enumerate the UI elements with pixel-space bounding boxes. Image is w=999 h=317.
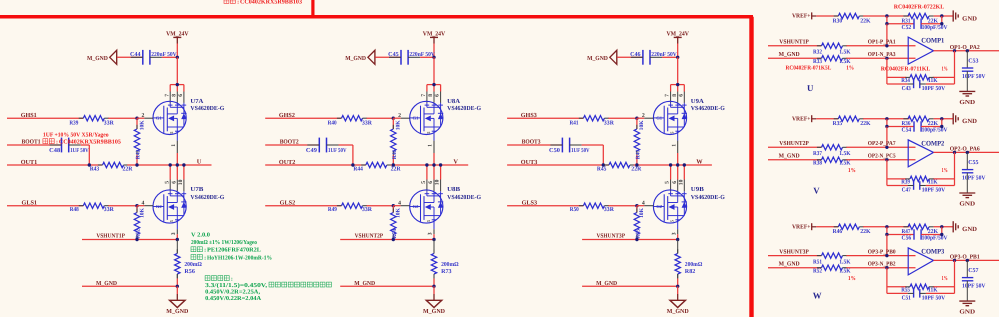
net label VSHUNT1P (phase 1) [96, 233, 125, 240]
net label BOOT2 (phase 2) [280, 139, 299, 146]
resistor R34 11K feedback [901, 75, 938, 85]
wire VM_24V down to U8A drain (phase 2) [433, 57, 435, 84]
svg-text:OP2-P_PA7: OP2-P_PA7 [868, 141, 896, 147]
wire BOOT1 (phase 1) [7, 144, 62, 146]
svg-text:1%: 1% [848, 168, 856, 174]
svg-text:1: 1 [428, 144, 434, 147]
svg-text:C53: C53 [968, 59, 978, 65]
net label GHS3 (phase 3) [521, 112, 537, 119]
border top short vertical red line [311, 0, 314, 17]
svg-text:R48: R48 [70, 207, 79, 213]
svg-text:RC0402FR-0711KL: RC0402FR-0711KL [881, 67, 931, 73]
svg-text:1%: 1% [942, 276, 948, 282]
svg-text:10PF 50V: 10PF 50V [922, 86, 946, 92]
pin 2 gate stub U7A (phase 1) [141, 113, 153, 119]
svg-text:22K: 22K [860, 121, 871, 127]
svg-text:HoYH1206-1W-200mR-1%: HoYH1206-1W-200mR-1% [207, 255, 272, 261]
junction OUT3/R47 (phase 3) [635, 163, 638, 166]
annotation 电流计算 [205, 276, 233, 283]
pins 7/8/6 drain stubs U7A (phase 1) [170, 92, 184, 103]
wire BOOT2 to OUT2 (phase 2) [339, 145, 353, 165]
power port M_GND arrow phase 2 [345, 50, 375, 64]
svg-text:R42: R42 [136, 149, 142, 159]
net label GLS1 (phase 1) [22, 200, 38, 207]
wire filter branch right [921, 227, 942, 235]
resistor R41 33R gate (phase 3) [570, 116, 615, 127]
wire U7B source to VSHUNT1P (phase 1) [176, 234, 178, 239]
svg-text:C49: C49 [306, 148, 317, 154]
svg-text:1%: 1% [942, 168, 948, 174]
resistor R82 200mOhm shunt (phase 3) [675, 240, 702, 279]
power port M_GND arrow phase 1 [87, 50, 117, 64]
wire filter branch right [921, 16, 942, 24]
pin numbers drain U7B (phase 1) [164, 179, 184, 185]
wire U9B source to VSHUNT3P (phase 3) [677, 234, 679, 239]
svg-text:10: 10 [435, 179, 441, 185]
wire feedback right [954, 260, 956, 293]
pin 2 gate stub U8A (phase 2) [398, 113, 410, 119]
wire cap to GND [966, 71, 968, 91]
svg-text:5: 5 [421, 181, 427, 184]
wire R31 to GND [934, 15, 954, 17]
wire OUT3 left (phase 3) [507, 164, 609, 166]
svg-text:PE1206FRF470R2L: PE1206FRF470R2L [207, 248, 261, 254]
annotation 备选 HoYH1206-1W-200mR-1% [191, 255, 272, 262]
wire VSHUNT3P (phase 3) [582, 239, 678, 241]
svg-text:VS4620DE-G: VS4620DE-G [447, 105, 481, 112]
svg-text:10K: 10K [396, 207, 402, 218]
wire GHS3 left (phase 3) [507, 117, 583, 119]
svg-text:1.5K: 1.5K [839, 59, 851, 65]
pin label OP3-N_PB2 [868, 261, 896, 267]
capacitor C53 10PF output [962, 59, 986, 80]
wire vref node to plus input [886, 235, 888, 256]
junction VSHUNT3P/source (phase 3) [676, 238, 679, 241]
net label OUT1 (phase 1) [21, 159, 38, 166]
wire output OP1-O_PA2 [934, 50, 999, 52]
svg-text:M_GND: M_GND [423, 308, 446, 315]
svg-text:10PF 50V: 10PF 50V [962, 175, 986, 181]
junction gate/R52 (phase 1) [135, 204, 138, 207]
junction filter left [885, 233, 888, 236]
annotation 0.450V/0.2R=2.25A [205, 289, 261, 295]
pin label OP1-O_PA2 [950, 45, 980, 51]
wire C45 to VM net phase 2 [420, 56, 434, 58]
svg-text:11K: 11K [928, 180, 938, 186]
wire M_GND to R52 [768, 267, 822, 269]
svg-text:7: 7 [665, 94, 671, 97]
wire OUT1 to phase node (phase 1) [127, 164, 211, 166]
resistor R39 33R gate (phase 1) [69, 116, 114, 127]
svg-text:VM_24V: VM_24V [667, 31, 690, 38]
wire U9A source to OUT3 (phase 3) [677, 153, 679, 165]
svg-text:200mΩ: 200mΩ [685, 262, 703, 268]
wire drain bus of U8A (phase 2) [427, 83, 441, 92]
junction vref-node right [940, 14, 943, 17]
junction filter right [940, 125, 943, 128]
resistor R33 1.5K [813, 56, 851, 65]
svg-text:100pF/50V: 100pF/50V [922, 236, 949, 242]
svg-text:1%: 1% [848, 276, 856, 282]
pin numbers drain U9B (phase 3) [665, 179, 685, 185]
wire OUT1 to U7B drains + junctions (phase 1) [169, 163, 186, 179]
svg-text:R49: R49 [328, 207, 337, 213]
svg-text:U: U [807, 83, 814, 93]
junction output/feedback [953, 151, 956, 154]
junction VSHUNT1P/R52 (phase 1) [135, 238, 138, 241]
wire GLS1 to gate (phase 1) [108, 205, 137, 207]
wire minus input [846, 57, 915, 59]
svg-text:G1: G1 [156, 116, 163, 121]
resistor R31 22K filter [902, 13, 939, 24]
pins 5/6/10 drain stubs U7B (phase 1) [170, 180, 184, 192]
net label phase U (phase 1) [197, 159, 202, 166]
wire GLS3 left (phase 3) [507, 205, 583, 207]
wire GHS2 to gate (phase 2) [367, 117, 394, 119]
svg-text:U7A: U7A [190, 98, 204, 105]
wire C44 to VM net phase 1 [162, 56, 177, 58]
ground GND right block 3 [953, 221, 977, 233]
power port VM_24V phase 3 [667, 31, 690, 44]
power port M_GND bottom phase 1 [166, 294, 189, 315]
svg-text:VS4620DE-G: VS4620DE-G [691, 105, 725, 112]
svg-text::: : [204, 255, 206, 261]
svg-text:10: 10 [678, 179, 684, 185]
svg-text:1UF 50V: 1UF 50V [571, 148, 590, 154]
wire BOOT2 (phase 2) [265, 144, 319, 146]
svg-text:1UF 50V: 1UF 50V [328, 148, 347, 154]
border main horizontal red line [0, 15, 753, 19]
svg-text:R46: R46 [392, 149, 398, 159]
svg-text:33R: 33R [362, 207, 373, 213]
annotation 1% right [942, 276, 948, 282]
svg-text:4: 4 [642, 200, 645, 206]
resistor R73 200mOhm shunt (phase 2) [431, 240, 458, 279]
svg-text:CC0402KRX5R9BB105: CC0402KRX5R9BB105 [59, 140, 121, 146]
wire filter branch left [887, 227, 914, 235]
svg-text:R30: R30 [833, 18, 843, 24]
node label phase letter block 2 [813, 185, 820, 195]
wire plus input [846, 255, 915, 257]
svg-text:R41: R41 [570, 120, 579, 126]
svg-text:10PF 50V: 10PF 50V [922, 295, 946, 301]
wire VM_24V vertical phase 2 [433, 44, 435, 58]
wire drain bus of U9A (phase 3) [671, 83, 685, 92]
svg-text:200mΩ: 200mΩ [184, 262, 202, 268]
svg-text:R34: R34 [901, 78, 910, 84]
svg-text:VREF+: VREF+ [792, 13, 811, 20]
resistor R50 33R gate (phase 3) [570, 203, 615, 213]
wire plus input [846, 146, 915, 148]
resistor R42 10K gate-source (phase 1) [134, 118, 145, 165]
svg-text::: : [237, 0, 239, 5]
wire feedback bottom [887, 83, 955, 85]
power port VREF+ block 1 [792, 12, 816, 19]
resistor R55 10K gate-source (phase 3) [634, 206, 645, 240]
junction output/cap [966, 49, 969, 52]
resistor R46 22K [833, 224, 871, 235]
op-amp COMP1 [908, 37, 945, 64]
svg-text:GND: GND [962, 15, 977, 22]
pin label OP2-O_PA6 [950, 147, 980, 153]
svg-text:1%: 1% [846, 66, 854, 72]
capacitor C56 100pF [902, 229, 949, 241]
junction VM_24V/C44 (phase 1) [176, 56, 179, 59]
junction BOOT3/OUT3 (phase 3) [602, 163, 605, 166]
resistor R39 11K feedback [901, 176, 938, 186]
svg-text:C57: C57 [968, 268, 978, 274]
wire vref node to plus input [886, 24, 888, 46]
svg-text:VS4620DE-G: VS4620DE-G [190, 194, 224, 201]
svg-text:GND: GND [959, 200, 975, 207]
svg-text:3: 3 [171, 232, 177, 235]
resistor R52 10K gate-source (phase 1) [134, 206, 145, 240]
pin 3 source stub U9B (phase 3) [671, 220, 677, 235]
pin 2 gate stub U9A (phase 3) [642, 113, 654, 119]
svg-text:COMP1: COMP1 [921, 38, 945, 45]
svg-text:W: W [813, 291, 822, 301]
junction vref-node right [940, 117, 943, 120]
wire OUT3 to U9B drains + junctions (phase 3) [669, 163, 686, 179]
svg-text:V: V [813, 185, 820, 195]
svg-text:R55: R55 [901, 288, 910, 294]
resistor R40 33R gate (phase 2) [328, 116, 373, 127]
svg-text:4: 4 [141, 200, 144, 206]
wire output OP2-O_PA6 [934, 151, 999, 153]
pin numbers drain U7A (phase 1) [164, 94, 184, 97]
wire feedback left [886, 160, 888, 186]
junction VSHUNT2P/source (phase 2) [432, 238, 435, 241]
transistor U8B VS4620DE-G low-side (phase 2) [410, 186, 482, 223]
svg-text:OP3-N_PB2: OP3-N_PB2 [868, 261, 896, 267]
svg-text:C48: C48 [49, 148, 60, 154]
svg-text:R32: R32 [813, 50, 822, 56]
resistor R47 10K gate-source (phase 3) [634, 118, 645, 165]
resistor R32 1.5K [813, 43, 851, 56]
wire OUT2 to phase node (phase 2) [391, 164, 469, 166]
wire BOOT3 (phase 3) [507, 144, 562, 146]
svg-text:1.5K: 1.5K [839, 50, 851, 56]
annotation 200mOhm 1W/1206/Yageo [191, 240, 257, 246]
wire gate U9B (phase 3) [637, 205, 644, 207]
wire gate U7B (phase 1) [137, 205, 144, 207]
wire feedback left [886, 58, 888, 84]
svg-text:U: U [197, 159, 202, 166]
resistor R56 200mOhm shunt (phase 1) [175, 240, 202, 279]
svg-text:1.5K: 1.5K [839, 268, 851, 274]
svg-text:C45: C45 [388, 52, 399, 58]
resistor R52 1.5K [813, 265, 851, 274]
capacitor C48 bootstrap 1UF (phase 1) [49, 138, 89, 154]
wire feedback left [886, 268, 888, 294]
net label M_GND comp block 1 [779, 51, 800, 58]
wire OUT2 left (phase 2) [265, 164, 366, 166]
power port VM_24V phase 1 [166, 31, 189, 44]
resistor R38 1.5K [813, 157, 851, 166]
svg-text:W: W [696, 159, 703, 166]
svg-text:8: 8 [428, 94, 434, 97]
wire GLS3 to gate (phase 3) [608, 205, 637, 207]
wire VSHUNT1P to R32 [768, 45, 822, 47]
net label OUT2 (phase 2) [279, 159, 296, 166]
ground GND right block 2 [953, 113, 977, 125]
svg-text:6: 6 [678, 94, 684, 97]
wire cap to GND [966, 281, 968, 301]
wire VREF+ to R35 [816, 118, 838, 120]
wire feedback bottom [887, 185, 955, 187]
ground GND bottom block 1 [959, 91, 975, 105]
svg-text:G1: G1 [656, 116, 663, 121]
wire M_GND phase 2 [340, 285, 434, 287]
wire shunt to M_GND (phase 1) [176, 279, 178, 287]
resistor R51 1.5K [813, 253, 851, 266]
svg-text:R73: R73 [441, 269, 452, 275]
junction VM_24V/C46 (phase 3) [676, 56, 679, 59]
junction vref-node left [885, 225, 888, 228]
annotation 1% left [848, 276, 856, 282]
wire M_GND to C44 phase 1 [117, 56, 143, 58]
net label phase V (phase 2) [453, 159, 458, 166]
svg-text:R43: R43 [90, 167, 100, 173]
wire R30 to node [863, 15, 909, 17]
wire GHS1 left (phase 1) [7, 117, 83, 119]
transistor U7B VS4620DE-G low-side (phase 1) [153, 186, 225, 223]
svg-text:R33: R33 [813, 59, 822, 65]
svg-text:6: 6 [178, 94, 184, 97]
pins 5/6/10 drain stubs U9B (phase 3) [671, 180, 685, 192]
svg-text:3: 3 [671, 232, 677, 235]
wire VSHUNT3P to R51 [768, 255, 822, 257]
wire gate U8B (phase 2) [393, 205, 400, 207]
junction OUT1/R42 (phase 1) [135, 163, 138, 166]
capacitor C46 220nF bulk (phase 3) [630, 50, 677, 65]
junction gate/R54 (phase 2) [392, 204, 395, 207]
annotation V 2.0.0 [191, 232, 210, 238]
svg-text:5: 5 [164, 181, 170, 184]
svg-text:11K: 11K [928, 78, 938, 84]
svg-text:22R: 22R [391, 167, 402, 173]
op-amp COMP3 [908, 248, 945, 275]
net label M_GND phase 2 [354, 280, 375, 287]
svg-text:6: 6 [672, 181, 678, 184]
svg-text:0.450V/0.2R=2.25A,: 0.450V/0.2R=2.25A, [205, 289, 261, 295]
wire VREF+ to R30 [816, 15, 838, 17]
op-amp COMP2 [908, 140, 945, 167]
junction plus/vref [885, 254, 888, 257]
pin 3 source stub U7B (phase 1) [171, 220, 177, 235]
svg-text:V: V [453, 159, 458, 166]
junction filter right [940, 22, 943, 25]
annotation RC0402FR-071K5L 1% [786, 66, 855, 72]
capacitor C45 220nF bulk (phase 2) [388, 50, 435, 65]
wire VM_24V vertical phase 3 [677, 44, 679, 58]
svg-text:8: 8 [672, 94, 678, 97]
resistor R44 22R (phase 2) [353, 162, 401, 172]
power port M_GND bottom phase 3 [667, 294, 690, 315]
wire VREF+ to R46 [816, 226, 838, 228]
svg-text:VS4620DE-G: VS4620DE-G [447, 194, 481, 201]
wire gate U7A (phase 1) [137, 117, 144, 119]
annotation top 型号 CC0402KRX5R9BB103 (cut) [224, 0, 302, 5]
svg-text:VSHUNT2P: VSHUNT2P [779, 140, 809, 147]
annotation 型号 CC0402KRX5R9BB105 [43, 139, 121, 146]
svg-text:8: 8 [171, 94, 177, 97]
svg-text:GND: GND [962, 226, 977, 233]
svg-text:22K: 22K [860, 18, 871, 24]
svg-text:VS4620DE-G: VS4620DE-G [190, 105, 224, 112]
resistor R37 1.5K [813, 145, 851, 158]
svg-text:1.5K: 1.5K [839, 160, 851, 166]
svg-text:10K: 10K [139, 120, 145, 131]
net label M_GND comp block 3 [779, 260, 800, 267]
net label VSHUNT2P comp [779, 140, 809, 147]
resistor R43 22R (phase 1) [90, 162, 133, 172]
resistor R54 10K gate-source (phase 2) [391, 206, 402, 240]
junction minus/feedback [885, 158, 888, 161]
svg-text:R37: R37 [813, 151, 822, 157]
wire output cap stem [966, 152, 968, 169]
pin numbers drain U8A (phase 2) [421, 94, 441, 97]
annotation RC0402FR-0722KL [894, 5, 944, 11]
svg-text:R35: R35 [833, 121, 843, 127]
wire R46 to node [863, 226, 909, 228]
wire filter branch right [921, 119, 942, 127]
net label VSHUNT3P (phase 3) [597, 233, 626, 240]
annotation 1UF +10% 50V X5R/Yageo [43, 132, 109, 138]
svg-text:VREF+: VREF+ [792, 116, 811, 123]
node label phase letter block 3 [813, 291, 822, 301]
wire R47 to GND [934, 226, 954, 228]
pin numbers drain U8B (phase 2) [421, 179, 441, 185]
svg-text:1UF +10% 50V X5R/Yageo: 1UF +10% 50V X5R/Yageo [43, 132, 109, 138]
capacitor C54 100pF [902, 121, 949, 133]
pin 4 gate stub U9B (phase 3) [642, 200, 654, 206]
wire U7A source to OUT1 (phase 1) [176, 153, 178, 165]
wire M_GND stub down (phase 3) [677, 286, 679, 294]
svg-text:1: 1 [671, 144, 677, 147]
wire filter branch left [887, 119, 914, 127]
transistor U8A VS4620DE-G high-side (phase 2) [410, 98, 482, 135]
svg-text:1: 1 [171, 144, 177, 147]
svg-text:OP1-N_PA3: OP1-N_PA3 [868, 52, 896, 58]
svg-text:C50: C50 [549, 148, 560, 154]
svg-text:VSHUNT1P: VSHUNT1P [96, 233, 125, 240]
svg-text:C55: C55 [968, 160, 978, 166]
wire M_GND stub down (phase 1) [176, 286, 178, 294]
svg-text:2: 2 [141, 113, 144, 119]
wire shunt to M_GND (phase 2) [433, 279, 435, 287]
junction minus/feedback [885, 57, 888, 60]
pin label OP1-N_PA3 [868, 52, 896, 58]
junction VSHUNT2P/R54 (phase 2) [392, 238, 395, 241]
wire OUT2 to U8B drains + junctions (phase 2) [425, 163, 442, 179]
junction gate/R42 (phase 1) [135, 117, 138, 120]
svg-text:COMP3: COMP3 [921, 249, 945, 256]
wire output OP3-O_PB1 [934, 259, 999, 261]
svg-text:10K: 10K [639, 207, 645, 218]
capacitor C57 10PF output [962, 268, 986, 289]
annotation RC0402FR-0711KL 1% [881, 67, 948, 73]
wire M_GND to C45 phase 2 [375, 56, 401, 58]
svg-text:G2: G2 [413, 204, 420, 209]
pin label OP3-P_PB0 [868, 249, 896, 255]
junction VSHUNT3P/R55 (phase 3) [635, 238, 638, 241]
transistor U9B VS4620DE-G low-side (phase 3) [653, 186, 725, 223]
wire drain bus of U7A (phase 1) [170, 83, 184, 92]
net label OUT3 (phase 3) [521, 159, 538, 166]
wire gate U8A (phase 2) [393, 117, 400, 119]
resistor R46 10K gate-source (phase 2) [391, 118, 402, 165]
